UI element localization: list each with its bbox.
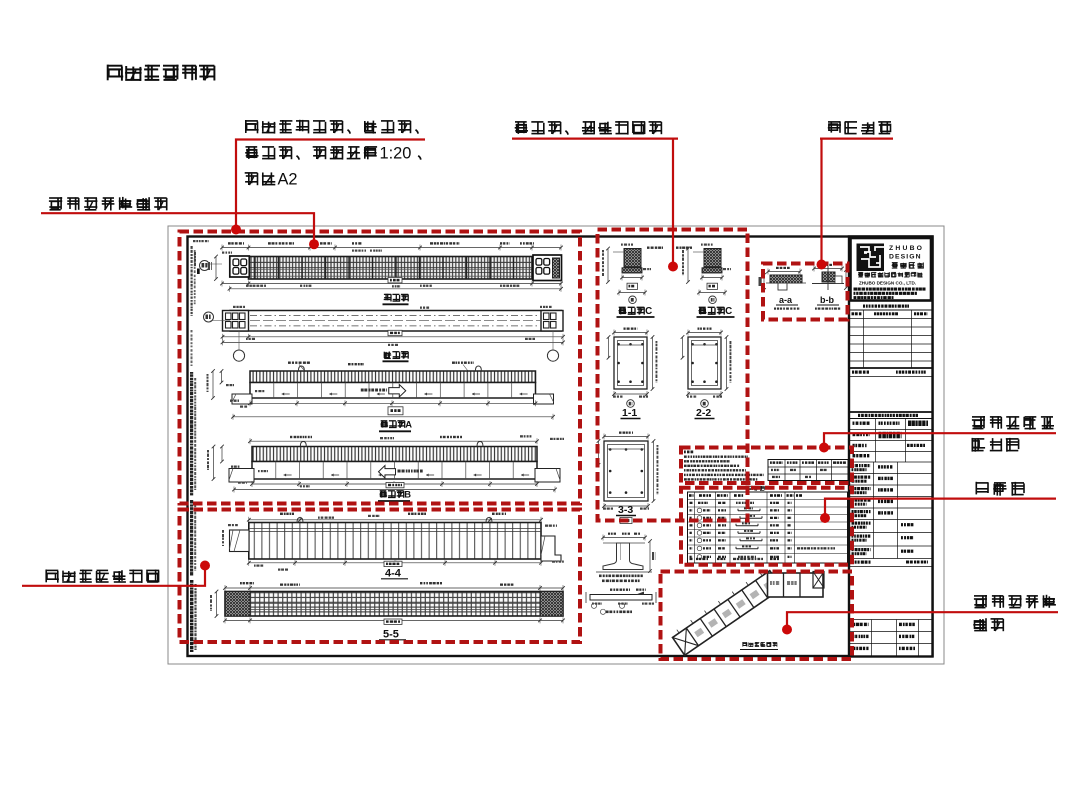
svg-text:B: B <box>404 489 411 500</box>
svg-text:ZHUBO DESIGN CO., LTD.: ZHUBO DESIGN CO., LTD. <box>859 281 916 286</box>
svg-text:3-3: 3-3 <box>618 504 633 516</box>
svg-text:a-a: a-a <box>779 295 793 305</box>
svg-text:b-b: b-b <box>820 295 834 305</box>
svg-text:A2: A2 <box>278 171 298 189</box>
svg-text:A: A <box>405 419 412 430</box>
svg-text:C: C <box>725 306 732 317</box>
svg-text:C: C <box>645 306 652 317</box>
svg-text:DESIGN: DESIGN <box>889 254 922 261</box>
svg-text:5-5: 5-5 <box>383 629 399 641</box>
svg-text:ZHUBO: ZHUBO <box>889 245 924 252</box>
svg-text:1-1: 1-1 <box>622 407 637 419</box>
svg-text:1:20: 1:20 <box>380 145 412 163</box>
svg-text:2-2: 2-2 <box>696 407 711 419</box>
svg-text:4-4: 4-4 <box>385 568 402 580</box>
